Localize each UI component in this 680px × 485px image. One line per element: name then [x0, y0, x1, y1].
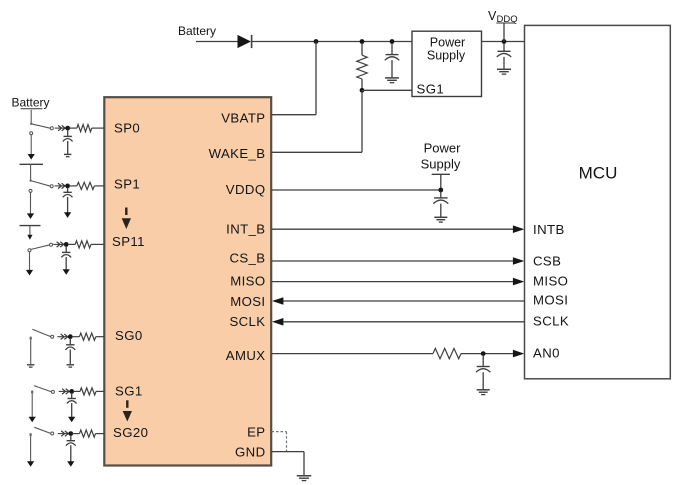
IC pin label MOSI: [230, 294, 265, 309]
IC pin label VDDQ: [226, 182, 266, 197]
svg-text:EP: EP: [247, 425, 265, 440]
switch SG0 pole branch: [27, 338, 34, 367]
switch SP0 pole branch: [28, 132, 35, 160]
IC pin label MISO: [230, 274, 265, 289]
wire INT_B to MCU INTB: [272, 228, 516, 230]
resistor SG1 series: [73, 388, 104, 395]
svg-text:MISO: MISO: [230, 274, 265, 289]
svg-text:MOSI: MOSI: [533, 293, 568, 308]
switch SP1 blade and contact: [31, 181, 54, 188]
IC pin label SG0: [115, 328, 143, 343]
svg-text:SG0: SG0: [115, 328, 143, 343]
IC pin label WAKE_B: [209, 146, 266, 161]
ellipsis arrow SP1..SP11: [122, 208, 131, 230]
svg-text:AN0: AN0: [533, 346, 560, 361]
svg-text:SP1: SP1: [114, 177, 140, 192]
switch SG20 blade and contact: [34, 427, 53, 435]
svg-text:SP11: SP11: [112, 234, 145, 249]
IC pin label CS_B: [229, 251, 265, 266]
ground below C1: [385, 78, 399, 83]
svg-text:Battery: Battery: [11, 96, 49, 110]
svg-text:GND: GND: [235, 445, 266, 460]
wire diode to power supply U2: [252, 41, 412, 43]
resistor R1 (WAKE_B pull-up): [357, 43, 367, 90]
junction node AN0 filter: [481, 351, 486, 356]
svg-text:VBATP: VBATP: [221, 111, 265, 126]
svg-text:SG1: SG1: [417, 82, 445, 97]
capacitor SG1 filter: [67, 393, 77, 422]
net label V_DDQ: [488, 9, 518, 25]
battery label (left): [11, 96, 49, 110]
junction node VDDQ top: [502, 39, 507, 44]
resistor SP11 series: [68, 241, 105, 248]
switch SP11 pole branch: [26, 249, 33, 276]
switch SG20 arrow into node: [58, 431, 70, 436]
capacitor SP0 filter: [63, 130, 73, 157]
svg-text:CSB: CSB: [533, 254, 561, 269]
wire AMUX from IC: [272, 353, 434, 355]
junction node SP11: [64, 242, 69, 247]
wire R2 to MCU AN0: [461, 353, 515, 355]
switch SG1 pole branch: [29, 392, 36, 423]
wire bar2 to SP11 switch: [27, 226, 32, 240]
wire EP dashed: [272, 432, 287, 452]
MCU pin label SCLK: [533, 314, 569, 329]
switch SP0 blade and contact: [31, 124, 53, 130]
wire WAKE_B to IC pin: [272, 151, 363, 153]
switch SG0 pivot: [30, 337, 32, 339]
resistor SG20 series: [72, 430, 104, 437]
capacitor SG20 filter: [66, 435, 76, 467]
junction node VDDQ/PS2: [438, 188, 443, 193]
wire GND to ground: [272, 452, 305, 476]
wire SCLK from MCU: [282, 321, 525, 323]
wire MISO to MCU MISO: [272, 281, 516, 283]
svg-text:SG20: SG20: [113, 425, 148, 440]
svg-text:INT_B: INT_B: [226, 222, 265, 237]
switch SP11 blade and contact: [31, 243, 53, 249]
junction node SG20: [68, 431, 73, 436]
resistor SP0 series: [69, 125, 104, 132]
switch SG0 arrow into node: [57, 334, 69, 339]
switch SG1 arrow into node: [59, 389, 71, 394]
ground below C4: [477, 390, 490, 395]
junction node at resistor R1 top: [360, 39, 365, 44]
wire VDDQ from IC: [272, 189, 441, 191]
arrowhead INTB: [513, 225, 524, 233]
MCU pin label AN0: [533, 346, 560, 361]
junction node SG1: [69, 389, 74, 394]
switch SP1 pole branch: [27, 189, 34, 219]
wire U2 output to MCU: [482, 41, 525, 43]
wire VBATP vertical drop: [315, 42, 317, 115]
switch SP1 arrow into node: [55, 183, 67, 188]
junction node at capacitor C1 top: [390, 39, 395, 44]
IC pin label VBATP: [221, 111, 265, 126]
wire MOSI from MCU: [282, 300, 525, 302]
svg-text:MOSI: MOSI: [230, 294, 265, 309]
MCU pin label MISO: [533, 274, 568, 289]
arrowhead SCLK into IC: [272, 318, 283, 326]
capacitor SP1 filter: [63, 187, 73, 218]
svg-text:MCU: MCU: [579, 164, 618, 183]
wire node to U2 pin SG1: [362, 89, 412, 91]
switch SP0 pivot: [30, 123, 32, 125]
switch SG20 pole branch: [27, 434, 34, 467]
MCU block: [525, 25, 671, 378]
arrowhead AN0: [513, 350, 524, 358]
power supply PS2 label: [421, 141, 461, 172]
svg-text:Supply: Supply: [421, 157, 461, 172]
capacitor SG0 filter: [65, 338, 75, 367]
ellipsis arrow SG1..SG20: [123, 400, 132, 421]
arrowhead MOSI into IC: [272, 297, 283, 305]
IC pin label AMUX: [226, 348, 266, 363]
switch SG0 blade and contact: [32, 329, 53, 338]
IC pin label EP: [247, 425, 265, 440]
svg-text:AMUX: AMUX: [226, 348, 266, 363]
junction node SG1/WAKE_B: [360, 88, 365, 93]
switch SG20 pivot: [29, 433, 31, 435]
resistor SG0 series: [72, 333, 105, 340]
power supply U2 label: [427, 36, 466, 63]
svg-text:Battery: Battery: [178, 24, 216, 38]
svg-text:SCLK: SCLK: [229, 314, 265, 329]
IC pin label GND: [235, 445, 266, 460]
MCU pin label MOSI: [533, 293, 568, 308]
wire bar1 to SP1 switch: [30, 164, 32, 180]
capacitor C2: [497, 43, 511, 69]
wire VBATP to IC pin: [272, 114, 317, 116]
resistor SP1 series: [69, 182, 104, 189]
switch SP0 arrow into node: [55, 125, 67, 130]
arrowhead MISO: [513, 278, 524, 286]
switch SG1 blade and contact: [34, 386, 54, 394]
svg-text:VDDQ: VDDQ: [226, 182, 266, 197]
resistor R2 (AMUX series): [433, 348, 461, 358]
wire CS_B to MCU CSB: [272, 260, 516, 262]
power supply PS2 stub: [440, 174, 442, 190]
junction node SP1: [65, 184, 70, 189]
junction node SP0: [65, 126, 70, 131]
MCU pin label CSB: [533, 254, 561, 269]
ground symbol at GND pin: [297, 476, 312, 481]
diode D1: [238, 35, 252, 48]
IC pin label SG1: [115, 384, 143, 399]
svg-text:SG1: SG1: [115, 384, 143, 399]
battery chain bar 1: [20, 163, 44, 165]
svg-text:Power: Power: [424, 141, 462, 156]
capacitor C4: [476, 355, 490, 390]
ground below C3: [434, 217, 447, 222]
IC pin label SG20: [113, 425, 148, 440]
switch SP1 pivot: [29, 179, 31, 181]
svg-text:INTB: INTB: [533, 222, 565, 237]
svg-text:SCLK: SCLK: [533, 314, 569, 329]
battery chain bar 2: [20, 225, 41, 227]
power supply U2 box: [412, 31, 482, 96]
IC U1 (multi-switch detection interface): [104, 97, 271, 465]
ground below C2: [497, 69, 511, 74]
svg-text:SP0: SP0: [114, 121, 140, 136]
IC pin label SP0: [114, 121, 140, 136]
MCU label: [579, 164, 618, 183]
capacitor C3: [433, 192, 448, 218]
net label VDDQ stub: [503, 23, 505, 42]
battery label (top): [178, 24, 216, 38]
power supply U2 pin SG1 label: [417, 82, 445, 97]
arrowhead CSB: [513, 257, 524, 265]
switch SG1 pivot: [31, 390, 33, 392]
IC pin label SP11: [112, 234, 145, 249]
junction node SG0: [68, 334, 73, 339]
svg-text:Supply: Supply: [427, 49, 466, 63]
wire node down to WAKE_B: [361, 90, 363, 152]
switch SP11 arrow into node: [53, 242, 65, 247]
junction node VBAT at x=316: [314, 39, 319, 44]
capacitor SP11 filter: [61, 246, 71, 275]
wire battery to diode D1: [196, 41, 238, 43]
wire battery label to SP0 switch: [30, 110, 32, 124]
IC pin label INT_B: [226, 222, 265, 237]
power supply PS2 bar: [432, 173, 450, 175]
svg-text:Power: Power: [430, 36, 465, 50]
MCU pin label INTB: [533, 222, 565, 237]
IC pin label SP1: [114, 177, 140, 192]
IC pin label SCLK: [229, 314, 265, 329]
svg-text:WAKE_B: WAKE_B: [209, 146, 266, 161]
capacitor C1: [385, 43, 399, 78]
svg-text:MISO: MISO: [533, 274, 568, 289]
svg-text:CS_B: CS_B: [229, 251, 265, 266]
